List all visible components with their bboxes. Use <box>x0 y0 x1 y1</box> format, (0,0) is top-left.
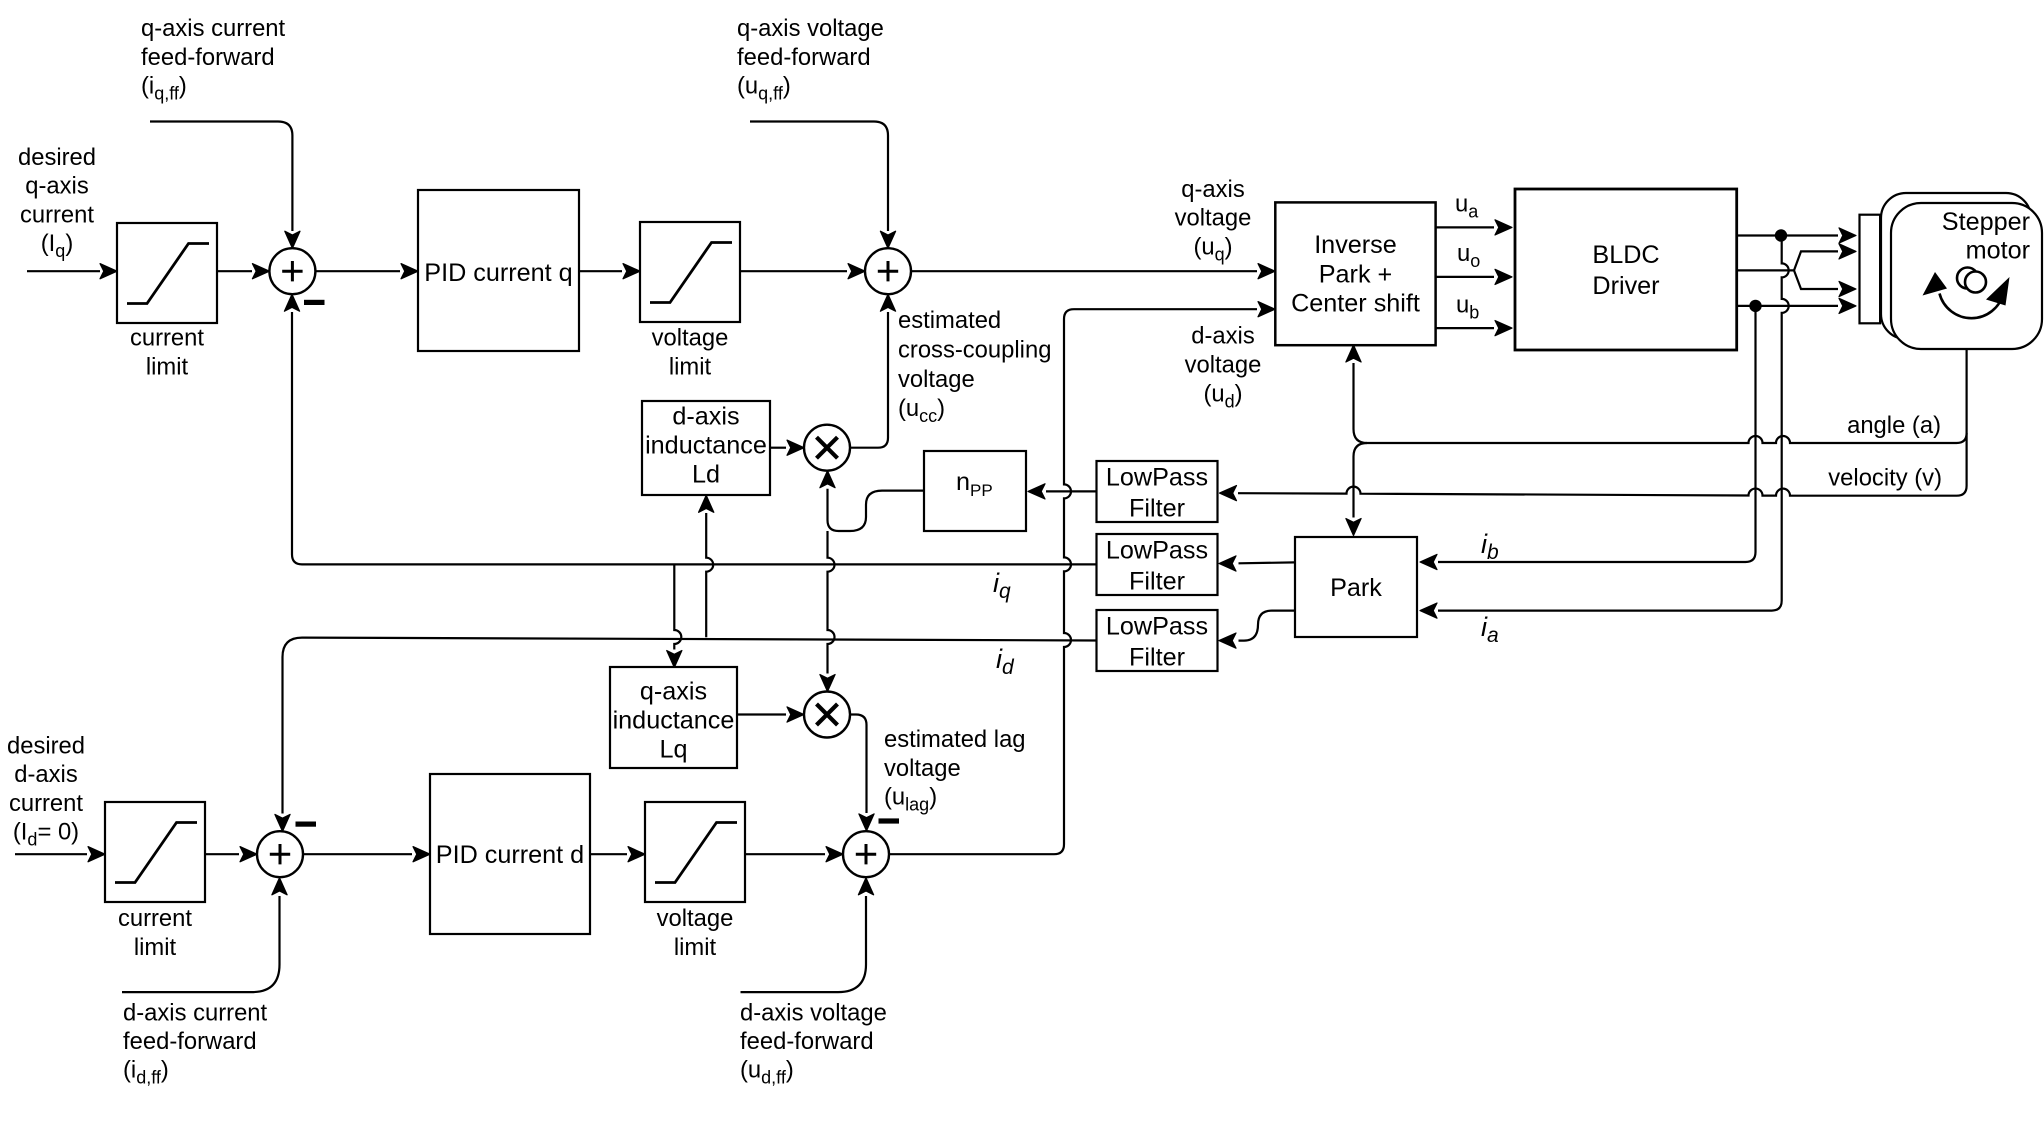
svg-text:motor: motor <box>1966 237 2030 265</box>
svg-text:angle (a): angle (a) <box>1847 412 1941 439</box>
wire: Park to LowPass Filter 3 (id raw) <box>1239 611 1296 641</box>
svg-text:limit: limit <box>669 353 712 380</box>
svg-text:velocity (v): velocity (v) <box>1828 465 1942 492</box>
wire: BLDC phase b to motor <box>1737 305 1838 307</box>
wire: uq,ff into sum2 top <box>750 122 888 232</box>
wire: motor velocity feedback to LowPass Filter 1 <box>1238 433 1967 496</box>
svg-text:BLDC: BLDC <box>1592 241 1659 269</box>
svg-text:Driver: Driver <box>1592 272 1659 300</box>
svg-text:estimated lag: estimated lag <box>884 726 1026 753</box>
wire: id feedback (LPF3 to sum3) <box>283 638 1097 814</box>
wire: Ld to X1 <box>770 447 786 449</box>
svg-text:limit: limit <box>146 353 189 380</box>
wire: X2 output down into sum4 (ulag) <box>850 715 867 814</box>
svg-text:Filter: Filter <box>1129 495 1185 523</box>
svg-text:voltage: voltage <box>657 905 734 932</box>
svg-text:current: current <box>118 905 192 932</box>
svg-text:PID current q: PID current q <box>424 259 572 287</box>
motor rotation icon <box>1957 268 1978 289</box>
svg-text:q-axis: q-axis <box>25 173 89 200</box>
junction dot phase b <box>1749 300 1761 312</box>
svg-text:Stepper: Stepper <box>1942 208 2030 236</box>
wires: ua uo ub to BLDC <box>1436 226 1494 228</box>
summing junction sum3 <box>257 831 303 877</box>
block: Inverse Park + Center shift <box>1275 202 1435 345</box>
svg-text:inductance: inductance <box>645 432 767 460</box>
wire: desired d current input <box>15 853 87 855</box>
svg-text:LowPass: LowPass <box>1106 464 1208 492</box>
block: LowPass Filter 3 <box>1097 610 1218 671</box>
svg-text:voltage: voltage <box>1185 352 1262 379</box>
block: nPP <box>924 451 1026 531</box>
svg-text:d-axis: d-axis <box>1191 323 1255 350</box>
block: LowPass Filter 2 <box>1097 534 1218 595</box>
svg-text:(ud): (ud) <box>1203 380 1242 411</box>
svg-text:voltage: voltage <box>1175 205 1252 232</box>
motor: back body <box>1881 193 2031 339</box>
wire: LPF1 to nPP <box>1046 490 1097 492</box>
svg-text:d-axis: d-axis <box>672 403 739 431</box>
block: BLDC Driver <box>1515 189 1737 350</box>
svg-text:q-axis: q-axis <box>1181 176 1245 203</box>
minus sign at sum1 bottom-right <box>304 300 325 305</box>
svg-text:voltage: voltage <box>884 755 961 782</box>
svg-text:PID current d: PID current d <box>436 841 584 869</box>
svg-text:(uq): (uq) <box>1193 234 1232 265</box>
wire: ia measurement (phase a down to Park) <box>1438 242 1789 611</box>
wire: sum2 to Inverse Park (uq) <box>911 270 1257 272</box>
svg-text:LowPass: LowPass <box>1106 613 1208 641</box>
block: voltage limit 2 (saturation) <box>645 802 745 902</box>
svg-text:Filter: Filter <box>1129 644 1185 672</box>
junction dot phase a <box>1775 229 1787 241</box>
block: q-axis inductance Lq <box>610 667 737 768</box>
svg-text:LowPass: LowPass <box>1106 537 1208 565</box>
wire: Lq to X2 <box>737 713 786 715</box>
svg-text:d-axis: d-axis <box>14 761 78 788</box>
svg-text:desired: desired <box>18 144 96 171</box>
block: current limit 2 (saturation) <box>105 802 205 902</box>
wire: multiplier chain vertical down to X2 <box>828 531 835 674</box>
block: PID current q <box>418 190 579 351</box>
svg-text:Filter: Filter <box>1129 568 1185 596</box>
svg-text:Park +: Park + <box>1319 260 1393 288</box>
wire: ib measurement (phase b down to Park) <box>1438 312 1756 562</box>
wire: current limit 1 to sum1 <box>217 270 252 272</box>
wire: Park to LowPass Filter 2 (iq raw) <box>1239 561 1296 564</box>
svg-text:desired: desired <box>7 733 85 760</box>
wire: ud,ff into sum4 bottom <box>741 896 867 992</box>
wire: X1 output up into sum2 (ucc) <box>850 312 888 448</box>
svg-text:voltage: voltage <box>898 366 975 393</box>
motor: front body <box>1891 203 2042 349</box>
block: LowPass Filter 1 <box>1097 461 1218 522</box>
svg-text:Park: Park <box>1330 574 1382 602</box>
svg-text:feed-forward: feed-forward <box>141 44 275 71</box>
svg-text:Lq: Lq <box>659 736 687 764</box>
wire: voltage limit 1 to sum2 <box>740 270 847 272</box>
wire: sum3 to PID current d <box>303 853 412 855</box>
wire: angle branch down into Park <box>1354 443 1368 518</box>
wire: id tap up into Ld <box>706 513 713 637</box>
svg-text:feed-forward: feed-forward <box>123 1028 257 1055</box>
minus sign at sum4 top-right <box>879 818 900 823</box>
summing junction sum2 <box>865 248 911 294</box>
svg-text:q-axis: q-axis <box>640 678 707 706</box>
svg-text:d-axis voltage: d-axis voltage <box>740 1000 887 1027</box>
svg-text:estimated: estimated <box>898 307 1001 334</box>
wire: PID q to voltage limit 1 <box>579 270 622 272</box>
svg-text:Ld: Ld <box>692 461 720 489</box>
svg-text:limit: limit <box>134 934 177 961</box>
wire: motor angle feedback to Inverse Park <box>1354 350 1967 444</box>
wire: voltage limit 2 to sum4 <box>745 853 825 855</box>
block: PID current d <box>430 774 590 934</box>
svg-text:(Id= 0): (Id= 0) <box>13 819 79 850</box>
svg-text:current: current <box>20 201 94 228</box>
svg-text:limit: limit <box>674 934 717 961</box>
wire: ud output of sum4 up to Inverse Park <box>889 309 1257 854</box>
wire: BLDC phase a to motor <box>1737 234 1838 236</box>
multiplier X2 <box>804 692 850 738</box>
wire: id,ff into sum3 bottom <box>122 896 280 992</box>
svg-text:Center shift: Center shift <box>1291 290 1420 318</box>
svg-text:voltage: voltage <box>652 324 729 351</box>
summing junction sum4 <box>843 831 889 877</box>
wire: desired q current input <box>27 270 100 272</box>
motor: connector plate <box>1860 215 1881 324</box>
multiplier X1 <box>804 425 850 471</box>
svg-text:Inverse: Inverse <box>1314 231 1397 259</box>
svg-text:feed-forward: feed-forward <box>737 44 871 71</box>
summing junction sum1 <box>269 248 315 294</box>
wire: sum1 to PID current q <box>315 270 400 272</box>
wire: iq tap down into Lq <box>674 564 681 649</box>
wire: BLDC center tap to motor (two pins) <box>1737 251 1838 270</box>
svg-text:q-axis current: q-axis current <box>141 15 286 42</box>
svg-text:current: current <box>9 790 83 817</box>
wire: nPP output to multiplier chain <box>828 489 925 531</box>
wire: PID d to voltage limit 2 <box>590 853 627 855</box>
wire: iq feedback (LPF2 to sum1) <box>292 312 1097 564</box>
svg-text:q-axis voltage: q-axis voltage <box>737 15 884 42</box>
block: current limit 1 (saturation) <box>117 223 217 323</box>
block: Park <box>1295 537 1417 637</box>
svg-text:cross-coupling: cross-coupling <box>898 337 1051 364</box>
wire: current limit 2 to sum3 <box>205 853 239 855</box>
minus sign at sum3 top-right <box>296 822 317 827</box>
svg-text:d-axis current: d-axis current <box>123 1000 268 1027</box>
svg-text:current: current <box>130 324 204 351</box>
wire: iq,ff into sum1 top <box>150 122 292 232</box>
svg-text:feed-forward: feed-forward <box>740 1028 874 1055</box>
block: voltage limit 1 (saturation) <box>640 222 740 322</box>
block: d-axis inductance Ld <box>642 401 770 495</box>
svg-text:inductance: inductance <box>613 707 735 735</box>
